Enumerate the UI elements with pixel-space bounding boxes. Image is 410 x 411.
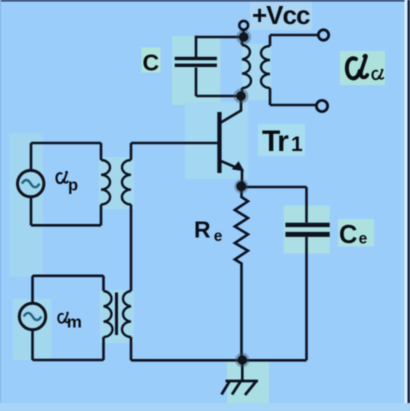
svg-text:p: p [68, 177, 78, 195]
svg-text:e: e [214, 228, 223, 245]
svg-text:e: e [359, 231, 368, 248]
svg-text:C: C [143, 50, 160, 76]
svg-text:+Vcc: +Vcc [252, 0, 310, 30]
svg-text:R: R [194, 217, 211, 243]
svg-text:C: C [339, 221, 357, 249]
svg-text:Tr: Tr [262, 125, 289, 158]
svg-text:1: 1 [291, 133, 303, 156]
svg-text:m: m [67, 313, 82, 332]
